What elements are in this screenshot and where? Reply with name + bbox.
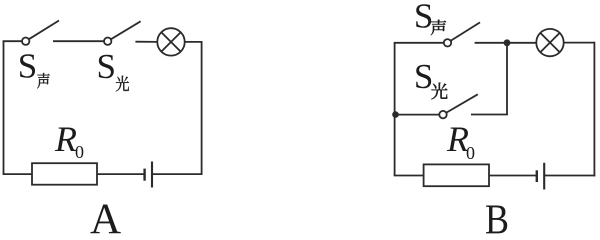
- wire: B lamp to top-right corner: [564, 42, 595, 44]
- wire: A bottom right (battery to corner): [152, 173, 203, 175]
- resistor R0 (A) box: [32, 163, 97, 185]
- wire: A left vertical: [3, 41, 5, 174]
- battery B long plate (+): [543, 163, 545, 190]
- wire: A right vertical: [201, 41, 203, 175]
- node: B top junction dot: [504, 39, 511, 46]
- battery A short plate (-): [143, 169, 145, 181]
- wire: B right vertical: [593, 42, 595, 177]
- battery A long plate (+): [151, 162, 153, 188]
- switch S光 pivot circle: [104, 38, 111, 45]
- svg-text:S: S: [414, 57, 433, 96]
- wire: B lower branch left to switch S光: [395, 114, 443, 116]
- wire: B top branch left to switch S声: [394, 42, 448, 44]
- wire: A bottom left: [3, 173, 32, 175]
- switch S光 blade (open): [108, 21, 141, 41]
- resistor R0 (B) box: [424, 164, 489, 186]
- wire: A resistor to battery: [97, 173, 145, 175]
- wire: B bottom left: [394, 175, 424, 177]
- switch S声 (B) pivot circle: [444, 39, 451, 46]
- lamp A cross stroke 1: [161, 32, 180, 51]
- wire: B lower branch fixed contact to vertical: [471, 114, 508, 116]
- wire: B top branch fixed contact to junction: [475, 42, 507, 44]
- lamp A cross stroke 2: [161, 32, 180, 51]
- battery B short plate (-): [536, 170, 538, 182]
- svg-text:0: 0: [466, 143, 475, 163]
- wire: A top-left horizontal to switch S声: [3, 40, 26, 42]
- label 声 subscript (A): [37, 73, 50, 89]
- wire: B parallel-branch vertical (junction down): [506, 43, 508, 115]
- switch S光 (B) pivot circle: [439, 111, 446, 118]
- wire: A between switches: [53, 40, 108, 42]
- label 光 subscript (B): [431, 83, 447, 100]
- svg-text:A: A: [90, 196, 121, 234]
- node: B left junction dot: [392, 111, 399, 118]
- svg-text:S: S: [97, 47, 116, 86]
- switch S光 (B) blade (open): [443, 94, 478, 114]
- wire: B resistor to battery: [489, 175, 537, 177]
- lamp A circle: [157, 28, 184, 55]
- svg-text:0: 0: [75, 142, 84, 162]
- lamp B cross stroke 2: [540, 33, 559, 52]
- wire: B bottom right: [544, 175, 595, 177]
- svg-text:B: B: [485, 198, 509, 235]
- wire: A lamp to top-right corner: [185, 41, 202, 43]
- label 光 subscript (A): [116, 76, 129, 92]
- svg-text:S: S: [18, 47, 37, 86]
- wire: B junction to lamp: [507, 42, 536, 44]
- lamp B circle: [536, 29, 563, 56]
- lamp B cross stroke 1: [540, 33, 559, 52]
- switch S声 blade (open): [26, 21, 59, 42]
- wire: B left vertical: [394, 43, 396, 176]
- svg-text:R: R: [54, 119, 77, 159]
- svg-text:S: S: [414, 0, 433, 36]
- label 声 subscript (B): [431, 20, 447, 36]
- switch S声 pivot circle: [22, 38, 29, 45]
- switch S声 (B) blade (open): [448, 22, 481, 42]
- wire: A from switch S光 to lamp: [135, 41, 157, 43]
